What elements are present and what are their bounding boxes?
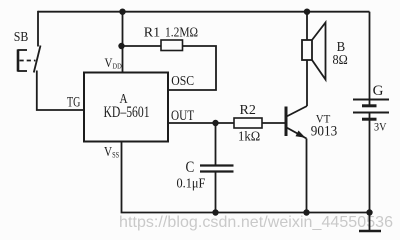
svg-text:1.2MΩ: 1.2MΩ: [165, 24, 198, 39]
svg-text:VDD: VDD: [105, 55, 122, 70]
svg-text:R1: R1: [144, 26, 160, 41]
svg-text:KD–5601: KD–5601: [104, 104, 150, 121]
svg-text:TG: TG: [67, 94, 80, 110]
svg-text:9013: 9013: [311, 123, 337, 140]
svg-text:R2: R2: [240, 103, 256, 118]
svg-text:3V: 3V: [374, 121, 386, 134]
svg-text:OSC: OSC: [171, 72, 194, 88]
svg-text:OUT: OUT: [171, 106, 194, 123]
svg-text:https://blog.csdn.net/weixin_4: https://blog.csdn.net/weixin_44550536: [119, 214, 393, 231]
svg-text:1kΩ: 1kΩ: [238, 128, 260, 144]
svg-text:8Ω: 8Ω: [333, 51, 348, 67]
svg-text:VSS: VSS: [104, 144, 119, 160]
svg-text:SB: SB: [14, 28, 29, 44]
svg-text:G: G: [373, 83, 384, 99]
svg-text:0.1μF: 0.1μF: [177, 175, 206, 191]
